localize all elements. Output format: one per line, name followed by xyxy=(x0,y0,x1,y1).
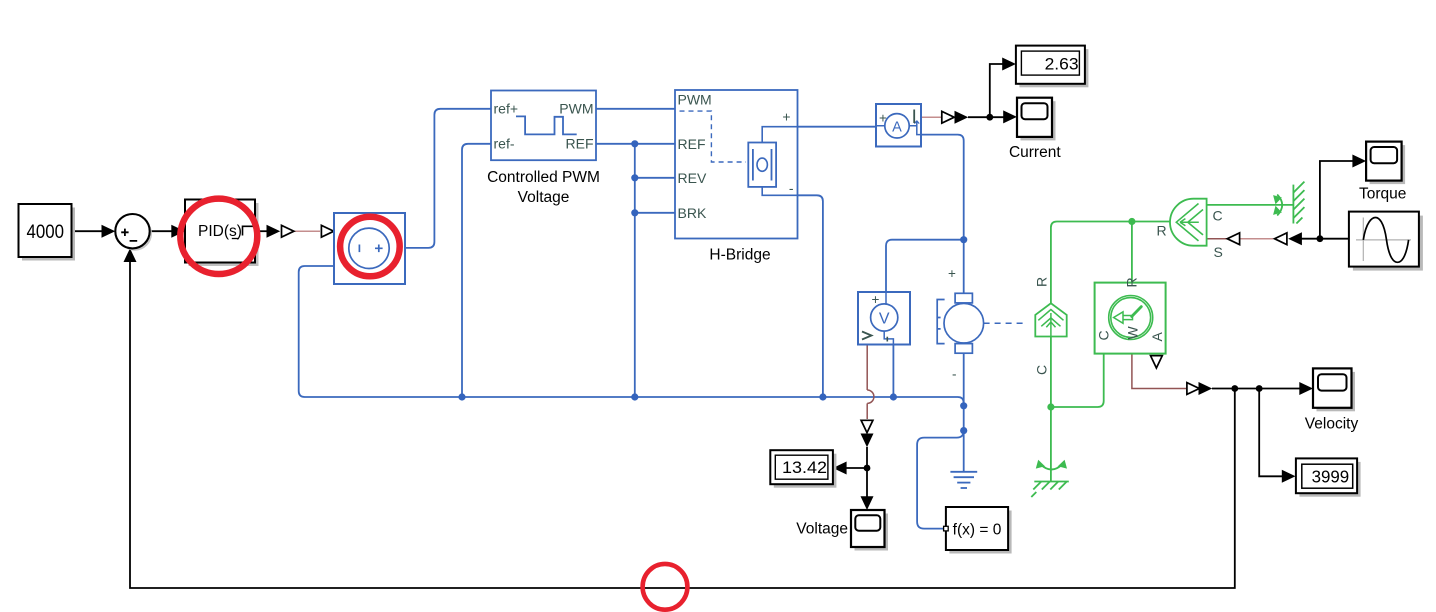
svg-text:Voltage: Voltage xyxy=(796,521,848,538)
svg-text:A: A xyxy=(892,119,902,135)
svg-text:-: - xyxy=(789,180,794,196)
svg-text:R: R xyxy=(1157,223,1167,239)
svg-text:REF: REF xyxy=(678,136,706,152)
svg-text:ref+: ref+ xyxy=(494,101,519,117)
svg-text:2.63: 2.63 xyxy=(1045,54,1079,73)
svg-text:3999: 3999 xyxy=(1312,466,1350,486)
svg-text:4000: 4000 xyxy=(27,221,65,243)
svg-text:PWM: PWM xyxy=(678,92,712,108)
svg-text:ref-: ref- xyxy=(494,136,515,152)
svg-text:+: + xyxy=(879,111,887,126)
svg-text:Voltage: Voltage xyxy=(518,189,570,206)
svg-text:REV: REV xyxy=(678,170,707,186)
svg-text:R: R xyxy=(1124,277,1140,287)
svg-text:+: + xyxy=(872,292,880,307)
svg-text:-: - xyxy=(952,367,957,382)
svg-text:H-Bridge: H-Bridge xyxy=(709,247,770,264)
svg-text:S: S xyxy=(1214,244,1223,260)
svg-text:Controlled PWM: Controlled PWM xyxy=(487,169,600,186)
svg-text:Current: Current xyxy=(1009,144,1061,161)
svg-text:W: W xyxy=(1125,326,1141,340)
svg-text:R: R xyxy=(1034,277,1050,287)
svg-text:+: + xyxy=(948,266,956,281)
svg-text:A: A xyxy=(1149,332,1165,342)
svg-text:REF: REF xyxy=(566,136,594,152)
svg-text:PWM: PWM xyxy=(559,101,593,117)
svg-text:C: C xyxy=(1034,365,1050,375)
svg-text:PID(s): PID(s) xyxy=(198,223,242,240)
svg-text:f(x) = 0: f(x) = 0 xyxy=(953,521,1002,538)
svg-text:+: + xyxy=(782,109,790,125)
svg-text:Velocity: Velocity xyxy=(1305,416,1359,433)
svg-text:V: V xyxy=(879,311,890,328)
svg-text:13.42: 13.42 xyxy=(782,458,827,477)
svg-text:C: C xyxy=(1213,208,1223,224)
svg-text:BRK: BRK xyxy=(678,205,707,221)
svg-text:C: C xyxy=(1096,330,1112,340)
svg-text:Torque: Torque xyxy=(1359,186,1406,203)
